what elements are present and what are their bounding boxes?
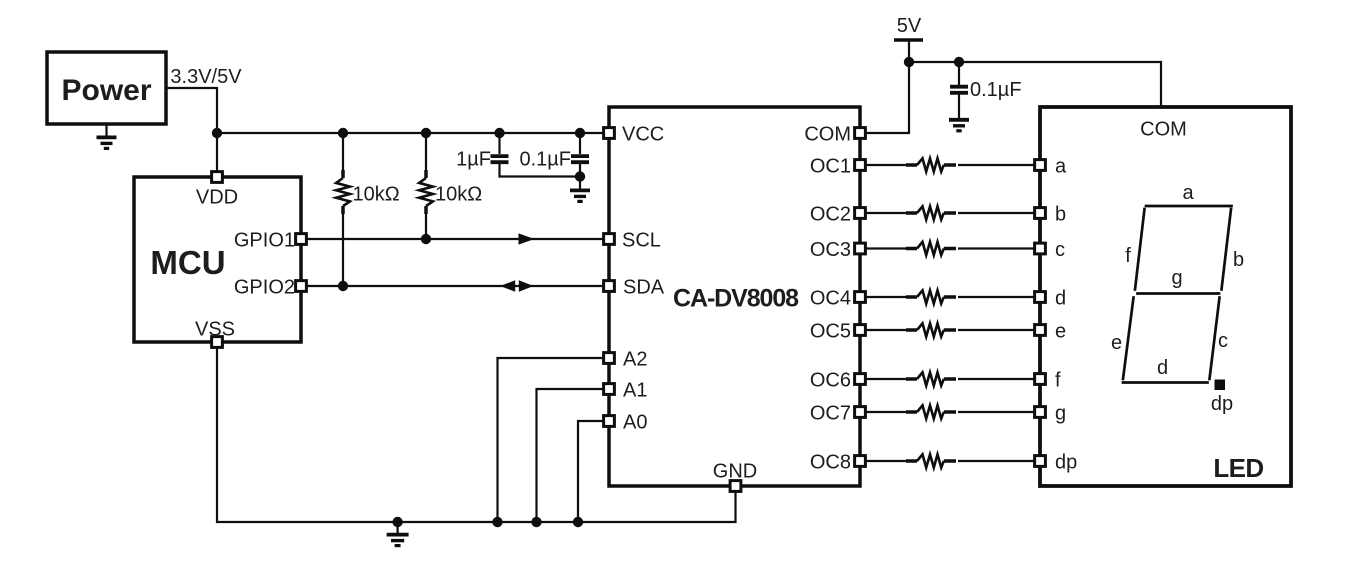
svg-text:1µF: 1µF — [456, 149, 491, 171]
svg-text:A2: A2 — [623, 348, 647, 370]
svg-text:COM: COM — [804, 123, 851, 145]
svg-text:OC1: OC1 — [810, 155, 851, 177]
svg-text:OC7: OC7 — [810, 402, 851, 424]
svg-text:g: g — [1171, 267, 1182, 289]
svg-text:d: d — [1055, 287, 1066, 309]
svg-text:LED: LED — [1213, 453, 1263, 483]
svg-text:a: a — [1055, 155, 1067, 177]
svg-text:b: b — [1233, 249, 1244, 271]
svg-text:VDD: VDD — [196, 187, 238, 209]
svg-text:SCL: SCL — [622, 229, 661, 251]
svg-text:d: d — [1157, 357, 1168, 379]
svg-text:f: f — [1055, 369, 1061, 391]
svg-text:GPIO1: GPIO1 — [234, 229, 295, 251]
svg-text:GND: GND — [713, 460, 757, 482]
svg-text:OC2: OC2 — [810, 203, 851, 225]
svg-text:e: e — [1055, 320, 1066, 342]
svg-text:VCC: VCC — [622, 123, 664, 145]
svg-text:OC3: OC3 — [810, 239, 851, 261]
svg-text:10kΩ: 10kΩ — [353, 183, 400, 205]
svg-text:A1: A1 — [623, 379, 647, 401]
svg-text:dp: dp — [1211, 393, 1233, 415]
svg-text:c: c — [1218, 330, 1228, 352]
svg-text:f: f — [1125, 245, 1131, 267]
svg-text:a: a — [1182, 182, 1194, 204]
svg-text:VSS: VSS — [195, 319, 235, 341]
svg-text:OC6: OC6 — [810, 369, 851, 391]
svg-text:0.1µF: 0.1µF — [519, 148, 571, 170]
svg-text:CA-DV8008: CA-DV8008 — [673, 284, 799, 312]
svg-text:0.1µF: 0.1µF — [970, 79, 1022, 101]
svg-text:GPIO2: GPIO2 — [234, 276, 295, 298]
svg-text:OC5: OC5 — [810, 320, 851, 342]
svg-text:MCU: MCU — [150, 244, 225, 281]
svg-text:Power: Power — [61, 74, 151, 107]
svg-text:SDA: SDA — [623, 276, 665, 298]
svg-text:3.3V/5V: 3.3V/5V — [170, 66, 242, 88]
svg-text:10kΩ: 10kΩ — [435, 183, 482, 205]
svg-text:g: g — [1055, 402, 1066, 424]
svg-text:e: e — [1111, 332, 1122, 354]
svg-text:COM: COM — [1140, 118, 1187, 140]
svg-text:c: c — [1055, 239, 1065, 261]
svg-text:A0: A0 — [623, 411, 647, 433]
svg-text:5V: 5V — [897, 15, 922, 37]
svg-text:OC8: OC8 — [810, 451, 851, 473]
svg-text:OC4: OC4 — [810, 287, 851, 309]
svg-text:b: b — [1055, 203, 1066, 225]
svg-text:dp: dp — [1055, 451, 1077, 473]
